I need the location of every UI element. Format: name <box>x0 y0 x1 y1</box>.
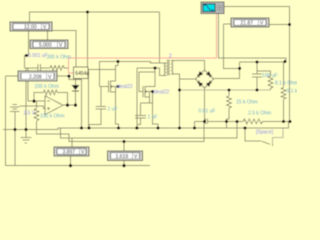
svg-text:ideal22: ideal22 <box>117 84 133 90</box>
meter M4 21.87 V <box>231 18 269 27</box>
svg-text:1.619: 1.619 <box>116 154 129 160</box>
wire feedback loop right <box>60 93 68 106</box>
capacitor C3 1uF plates <box>96 107 107 109</box>
diode D1 lead to opamp output <box>75 91 77 105</box>
wire meter M3 right lead <box>57 75 69 77</box>
wire bridge right vertex lead <box>214 62 240 79</box>
svg-text:100 k Ohm: 100 k Ohm <box>40 114 64 120</box>
capacitor C5 bottom lead <box>256 77 258 90</box>
capacitor C6 plates <box>204 119 206 124</box>
wire gate2 vertical <box>139 72 155 92</box>
wire feedback loop left <box>34 93 43 102</box>
svg-text:100 uF: 100 uF <box>262 73 278 79</box>
resistor R4 15k top lead <box>228 90 230 96</box>
wire scope top wire and right vertical <box>224 7 290 122</box>
capacitor C4 1uF top lead <box>140 103 142 116</box>
wire ground rail <box>3 121 289 129</box>
6454a box bottom lead <box>75 79 77 86</box>
svg-text:2: 2 <box>169 54 172 60</box>
meter M1 12.00 V <box>10 22 52 31</box>
scope icon <box>201 2 224 14</box>
svg-text:2.208: 2.208 <box>29 74 42 80</box>
capacitor C1 0.001uF <box>37 64 39 72</box>
wire measurement line to DC rail <box>60 121 237 138</box>
resistor R5 8.1k zigzag <box>268 76 273 90</box>
resistor R5 8.1k top lead <box>258 71 271 76</box>
transistor Q2 middle tap to ground rail <box>145 92 158 129</box>
svg-text:1 uF: 1 uF <box>148 115 158 121</box>
svg-text:1 uF: 1 uF <box>108 107 118 113</box>
wire meter M4 right lead <box>269 24 290 26</box>
wire link rail to lower rail <box>226 121 228 128</box>
meter M3 2.208 V <box>18 71 57 81</box>
wire gray switch return <box>273 129 284 144</box>
resistor R4 bottom lead <box>227 108 230 121</box>
wire DC output rail right part <box>208 120 244 122</box>
transistor Q1 source lead <box>110 92 118 128</box>
transistor Q1 drain lead <box>110 70 115 82</box>
wire meter M1 bottom lead down to RC row <box>25 31 29 68</box>
wire branch from top rail down at x=88 <box>87 12 89 70</box>
transistor Q1 ideal22 <box>108 80 118 92</box>
wire node branch down to ground rail <box>69 76 82 128</box>
meter M5 3.897 V <box>54 147 89 156</box>
wire meter M4 left lead <box>224 23 232 25</box>
meter M6 1.619 V <box>108 151 143 161</box>
transistor Q2 source lead <box>145 97 153 103</box>
wire gray rectifier negative bus <box>180 89 271 91</box>
transformer T1 <box>164 60 172 76</box>
resistor R7 2.5k zigzag <box>243 119 290 124</box>
wire meter M4 left lead vertical <box>224 24 240 68</box>
wire gate1 horizontal <box>100 86 109 88</box>
svg-text:ideal22: ideal22 <box>153 90 169 96</box>
svg-text:5.000: 5.000 <box>39 43 52 49</box>
svg-text:8.1 k Ohm: 8.1 k Ohm <box>275 81 297 87</box>
wire inverting branch to 100k top <box>36 101 38 108</box>
wire vertical behind 6454a box to ground rail <box>87 70 89 129</box>
capacitor C4 bottom lead <box>137 118 141 124</box>
wire 100k bottom to meter net <box>37 121 205 142</box>
svg-text:200 k Ohm: 200 k Ohm <box>35 84 59 90</box>
wire transformer primary feed <box>159 12 161 64</box>
wire ground-side vertical from RC row to bottom rail <box>25 68 27 130</box>
wire inverting input <box>28 68 45 101</box>
wire transformer secondary bottom <box>171 74 180 128</box>
battery B1 lead down to ground rail <box>14 111 16 165</box>
wire cap C4 join <box>141 102 150 104</box>
resistor R4 15k zigzag <box>227 96 232 108</box>
svg-text:[Space]: [Space] <box>256 130 274 136</box>
wire meter M2 top lead to 6454a box <box>48 31 77 68</box>
ground symbol stem <box>25 130 27 138</box>
wire meter M6 top lead <box>123 142 125 152</box>
switch SW1 right contact <box>272 144 274 146</box>
svg-text:0.01 uF: 0.01 uF <box>199 109 216 115</box>
wire primary bottom elbow <box>155 68 166 75</box>
wire transformer secondary top to bridge <box>171 60 205 70</box>
wire opamp output <box>63 104 76 106</box>
wire gate feed net upper <box>100 61 167 86</box>
wire meter M5 top lead <box>71 138 73 147</box>
resistor R6 bottom lead <box>283 99 285 121</box>
svg-text:2.5 k Ohm: 2.5 k Ohm <box>248 111 271 117</box>
battery B1 4.5V <box>10 104 20 111</box>
wire top rail from meter M1 to transformer primary <box>30 12 160 22</box>
switch SW1 left lead <box>245 128 262 141</box>
wire meter M5 bottom lead <box>70 156 72 166</box>
wire drain node snake to box pin <box>88 61 118 69</box>
wire salmon scope probe B <box>219 14 286 63</box>
resistor R6 0.1k zigzag <box>281 88 286 100</box>
capacitor C5 100uF top lead <box>256 62 258 74</box>
wire meter M3 left lead to left rail <box>6 75 19 77</box>
svg-text:0.001 uF: 0.001 uF <box>28 53 48 59</box>
resistor R1 300k zigzag <box>50 66 69 71</box>
wire pink probe A net <box>69 14 217 74</box>
wire drain2 and primary-bottom node <box>137 68 155 86</box>
transistor Q2 ideal22 <box>143 86 150 98</box>
svg-text:0.1 k O: 0.1 k O <box>287 89 298 95</box>
svg-text:300 k Ohm: 300 k Ohm <box>47 55 71 61</box>
capacitor C6 0.01uF left lead vertical <box>194 121 196 128</box>
capacitor C4 1uF plates <box>135 116 146 119</box>
svg-text:21.87: 21.87 <box>241 21 254 27</box>
wire bridge bottom vertex to output rail <box>204 88 206 121</box>
svg-text:6454a: 6454a <box>75 71 89 77</box>
svg-text:3.897: 3.897 <box>63 150 76 156</box>
wire rectified DC top line <box>240 61 285 63</box>
part box 6454a <box>74 67 90 79</box>
wire left rail <box>6 76 151 166</box>
wire long vertical to ground rail <box>136 68 138 128</box>
wire meter M6 bottom lead <box>123 161 125 166</box>
meter M2 5.000 V <box>30 40 68 49</box>
wire noninverting input from battery <box>20 106 46 109</box>
resistor R3 100k vertical zigzag <box>34 109 39 121</box>
switch SW1 lever <box>262 141 270 144</box>
op-amp U1 <box>45 96 63 115</box>
diode bridge D2-D5 <box>195 70 213 88</box>
wire RC row left <box>25 67 38 69</box>
svg-text:12.00: 12.00 <box>24 25 37 31</box>
svg-text:15 k Ohm: 15 k Ohm <box>236 100 258 106</box>
diode D1 <box>71 85 80 91</box>
wire bridge left vertex lead <box>180 78 196 80</box>
capacitor C3 1uF top lead <box>100 87 102 107</box>
resistor R2 200k zigzag <box>43 90 59 95</box>
svg-text:2.5 V: 2.5 V <box>24 111 36 117</box>
capacitor C5 100uF plates <box>252 74 262 77</box>
ground symbol left <box>20 138 31 143</box>
capacitor C3 bottom lead <box>89 109 101 128</box>
wire DC output rail y121 <box>195 120 206 122</box>
resistor R6 0.1k top lead <box>283 62 285 88</box>
